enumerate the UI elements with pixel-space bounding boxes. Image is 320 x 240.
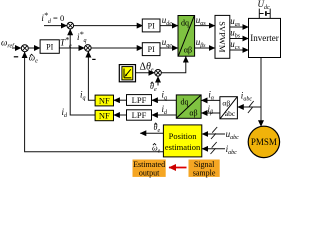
svg-text:LPF: LPF (132, 110, 147, 120)
svg-text:NF: NF (99, 95, 110, 105)
svg-text:αβ: αβ (222, 99, 230, 108)
svg-text:dq: dq (181, 19, 189, 28)
svg-text:αβ: αβ (189, 109, 197, 118)
svg-text:SVPWM: SVPWM (218, 21, 228, 53)
svg-text:NF: NF (99, 110, 110, 120)
svg-text:PI: PI (46, 42, 53, 51)
svg-text:dq: dq (181, 98, 189, 107)
svg-text:LPF: LPF (132, 95, 147, 105)
svg-text:sample: sample (193, 168, 216, 177)
svg-text:PI: PI (148, 21, 155, 30)
svg-text:output: output (139, 168, 160, 177)
svg-text:PMSM: PMSM (251, 137, 277, 147)
svg-text:PI: PI (148, 45, 155, 54)
svg-text:estimation: estimation (165, 142, 201, 152)
svg-text:αβ: αβ (184, 46, 192, 55)
svg-text:Position: Position (169, 131, 198, 141)
svg-text:abc: abc (225, 109, 236, 118)
svg-text:Inverter: Inverter (250, 33, 278, 43)
